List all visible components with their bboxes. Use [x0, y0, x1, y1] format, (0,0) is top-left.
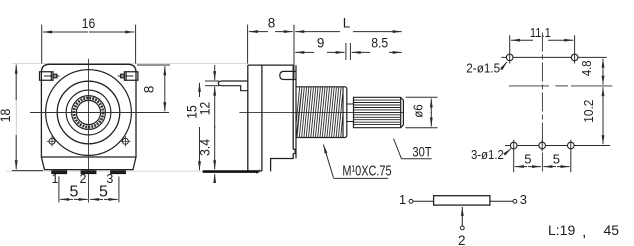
centerline vertical holes view [541, 33, 543, 172]
svg-text:12: 12 [198, 102, 213, 116]
screw hole right [122, 138, 128, 144]
body circle [57, 81, 120, 144]
wire right [490, 200, 513, 202]
side body outline [248, 65, 293, 171]
centerline horizontal side view [239, 111, 403, 113]
leader 30T [394, 139, 432, 159]
centerline horizontal front view [30, 112, 169, 114]
dim 18 left [12, 65, 43, 171]
svg-text:ø6: ø6 [411, 104, 426, 118]
svg-text:3.4: 3.4 [198, 139, 213, 156]
svg-text:,: , [582, 224, 586, 241]
svg-text:18: 18 [0, 109, 13, 123]
side body inner line [261, 65, 263, 171]
svg-text:3-ø1.2: 3-ø1.2 [471, 147, 504, 162]
wire left [413, 200, 434, 202]
svg-text:4.8: 4.8 [579, 61, 594, 77]
pin 1 front [52, 171, 67, 174]
wiper arrow [461, 207, 463, 226]
knurl toothed circle [74, 98, 103, 127]
dim 12 / 3.4 line [214, 65, 216, 80]
side notch right [293, 149, 295, 153]
svg-text:5: 5 [69, 183, 78, 200]
svg-text:5: 5 [524, 151, 531, 166]
mount tab right front [121, 72, 138, 81]
svg-text:1: 1 [399, 192, 406, 207]
svg-text:L: L [343, 15, 351, 30]
dim L top [402, 25, 404, 46]
side tab left [218, 81, 248, 91]
shaft outer circle [72, 96, 106, 130]
washer circle outer [46, 70, 132, 156]
svg-text:5: 5 [553, 151, 560, 166]
svg-text:16: 16 [82, 16, 96, 31]
screw hole crosshairs [47, 136, 131, 147]
screw hole left [49, 138, 55, 144]
pin strip side view [203, 170, 260, 173]
svg-text:45: 45 [604, 222, 620, 238]
dim 15 left of side view [199, 83, 201, 97]
svg-text:10.2: 10.2 [581, 100, 596, 123]
body outline front [41, 64, 136, 157]
thread hatch [296, 87, 343, 138]
resistor body [434, 196, 490, 205]
dim 8 front right [137, 64, 170, 66]
svg-text:8: 8 [141, 86, 156, 94]
hole top-right [571, 54, 578, 61]
svg-text:2: 2 [458, 233, 466, 246]
knurl serration lines [354, 100, 401, 125]
hole bottom-left [510, 142, 517, 149]
dim phi6 [406, 97, 438, 127]
projection line top (grey) [12, 62, 248, 64]
projection line bottom (grey) [6, 170, 203, 172]
dim 11.1 [511, 39, 533, 41]
centerline vertical front view [88, 59, 90, 203]
svg-text:8: 8 [268, 15, 276, 30]
dim 5 5 holes [515, 166, 527, 168]
dim 16 top [42, 25, 136, 64]
shaft neck [347, 97, 354, 128]
terminal 3 [513, 199, 517, 203]
leader M10XC.75 [323, 145, 388, 179]
bottom holes line [505, 145, 610, 147]
hole top-left [506, 54, 513, 61]
side ear top [280, 71, 297, 79]
dim 5 5 front bottom [59, 177, 119, 203]
svg-text:3: 3 [520, 192, 527, 207]
terminal 2 [460, 226, 464, 230]
svg-text:2: 2 [80, 172, 87, 186]
hole bottom-mid [539, 142, 546, 149]
pin 3 front [111, 171, 126, 174]
top holes line [501, 56, 606, 58]
svg-text:30T: 30T [412, 145, 431, 160]
svg-text:11.1: 11.1 [530, 26, 551, 40]
svg-text:1: 1 [52, 172, 59, 186]
dim 8 side top [248, 25, 294, 80]
hole ticks bottom [514, 140, 571, 173]
bottom lip front [41, 157, 136, 170]
terminal 1 [409, 199, 413, 203]
svg-text:8.5: 8.5 [371, 36, 388, 51]
shaft bore circle [76, 100, 100, 124]
rotor circle [66, 90, 111, 135]
thread outline [296, 65, 347, 158]
svg-text:5: 5 [99, 183, 108, 200]
centerline horizontal dash-dot [509, 85, 613, 87]
knurl shaft outline [354, 97, 404, 127]
svg-text:2-ø1.5: 2-ø1.5 [466, 61, 500, 76]
svg-text:M¹0XC.75: M¹0XC.75 [342, 162, 391, 179]
pin 2 front [81, 171, 96, 174]
mount tab left front [40, 72, 57, 81]
svg-text:9: 9 [317, 36, 325, 51]
dim 4.8 [602, 59, 604, 66]
extension lines tab side [205, 81, 219, 86]
svg-text:L:19: L:19 [548, 222, 575, 238]
hole ticks top [510, 35, 575, 63]
dim 10.2 [602, 87, 604, 116]
dim 9 [346, 43, 351, 60]
hole bottom-right [568, 142, 575, 149]
dim 8.5 [352, 51, 370, 53]
